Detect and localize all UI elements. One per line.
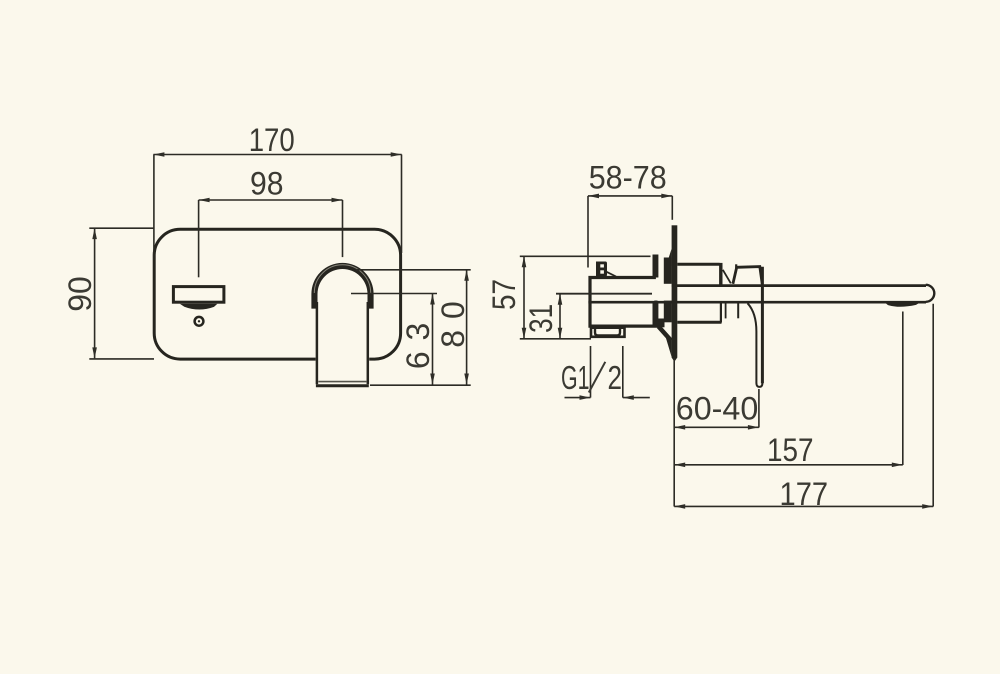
dim 157 right arrow [892, 463, 903, 468]
dim 63 top arrow [430, 294, 435, 305]
bar bottom wedge [666, 338, 672, 357]
svg-text:170: 170 [249, 122, 295, 158]
junction bottom base fill [658, 319, 665, 328]
svg-text:57: 57 [486, 279, 522, 310]
lever bottom cap [756, 383, 762, 387]
dim 90 bottom extension [89, 358, 154, 360]
stub notch upper [600, 264, 604, 267]
stub slope line [607, 272, 617, 277]
cover top line [677, 263, 719, 266]
spout tube end cap [926, 285, 935, 302]
dim G1/2 right arrowhead [623, 395, 634, 400]
dim 31 bottom arrow [558, 328, 563, 339]
cartridge thin line (31 reference) [556, 293, 652, 295]
dims 57/31 bottom extension [520, 338, 591, 340]
dim 63 bottom arrow [430, 374, 435, 385]
dim 177 right arrow [922, 504, 933, 509]
dim 58-78 left extension [587, 196, 589, 268]
svg-text:80: 80 [435, 301, 471, 348]
dims 63/80 shared bottom extension [370, 384, 471, 386]
spout front rectangle [173, 287, 224, 303]
wall plate rounded rectangle [154, 229, 400, 359]
svg-text:90: 90 [62, 276, 98, 312]
dim 58-78 right arrow [661, 194, 672, 199]
dim 57 top extension [520, 255, 651, 257]
svg-text:58-78: 58-78 [589, 159, 667, 195]
cover right edge [719, 263, 722, 286]
cover bottom line [677, 321, 721, 324]
spout outlet crescent [885, 303, 920, 307]
dim 98 right extension [342, 200, 344, 257]
junction outer bottom block [664, 301, 672, 323]
dim 98 line [199, 199, 343, 201]
spout tube top line [672, 284, 926, 287]
junction flange top block [653, 255, 659, 278]
svg-text:2: 2 [608, 359, 623, 396]
dim 80 top arrow [464, 270, 469, 281]
dim 98 left extension [198, 200, 200, 277]
drain wedge diagonal [659, 327, 672, 341]
svg-text:157: 157 [767, 432, 814, 468]
svg-text:60-40: 60-40 [676, 391, 759, 427]
wall plate bar (side) [672, 225, 678, 357]
cover bottom inner edge [725, 303, 727, 318]
handle left side line [316, 302, 319, 384]
dim 60-40 right extension [758, 389, 760, 428]
dim 177 left arrow [674, 504, 685, 509]
dim 157 right extension [902, 312, 904, 466]
dim 80 top extension [356, 269, 471, 271]
dim 90 top extension [89, 227, 154, 229]
junction outer top block [664, 258, 672, 284]
dim 170 line [153, 154, 401, 156]
svg-text:63: 63 [400, 323, 436, 370]
dim 31 line [559, 294, 561, 339]
handle silhouette (background fill) [311, 263, 373, 388]
dim 170 left arrow [153, 152, 164, 157]
dim 57 top arrow [522, 256, 527, 267]
body split line / tube bottom line [588, 301, 926, 304]
aerator circle [195, 317, 204, 326]
dim 60-40 right arrow [748, 425, 759, 430]
dim 157 line [674, 464, 903, 466]
handle right side line [367, 302, 370, 384]
inlet housing outer [591, 328, 625, 337]
svg-text:G1: G1 [561, 359, 590, 396]
spout underside crescent [180, 304, 218, 310]
dim G1/2 left extension [590, 346, 592, 398]
svg-text:177: 177 [780, 476, 829, 512]
dim G1/2 right arrow line [623, 397, 650, 399]
inlet housing inner [595, 329, 620, 336]
dim 58-78 right extension [671, 196, 673, 220]
dim 60-40 line [674, 426, 759, 428]
dim 58-78 line [588, 195, 672, 197]
svg-text:98: 98 [250, 166, 284, 202]
handle cap notch tick [735, 264, 737, 268]
dim 177 right extension [932, 304, 934, 507]
dim 60-40 left arrow [674, 425, 685, 430]
long left extension (wall line) [673, 358, 675, 507]
dim 58-78 left arrow [588, 194, 599, 199]
lever front curve [748, 303, 757, 383]
valve body rectangle [590, 278, 656, 327]
dim 90 top arrow [92, 228, 97, 239]
dim G1/2 left arrowhead [580, 395, 591, 400]
dim 98 right arrow [332, 198, 343, 203]
dim G1/2 right extension [622, 346, 624, 398]
stub notch lower [600, 270, 604, 273]
dim 31 top arrow [558, 294, 563, 305]
handle bottom edge [316, 384, 369, 387]
dim G1/2 left arrow line [565, 397, 591, 399]
dim 170 right arrow [391, 152, 402, 157]
dim 177 line [674, 505, 933, 507]
lever rear edge [761, 267, 764, 384]
svg-text:31: 31 [523, 304, 559, 333]
G1/2 fraction slash [589, 362, 606, 393]
lever front diagonal [723, 270, 731, 284]
dim 157 left arrow [674, 463, 685, 468]
dim 57 bottom arrow [522, 328, 527, 339]
dim 63 top extension (handle pivot line) [351, 293, 437, 295]
wall bar bottom taper [672, 358, 678, 362]
aerator center dot [198, 320, 200, 322]
dim 98 left arrow [199, 198, 210, 203]
dim 80 bottom arrow [464, 374, 469, 385]
bar top wedge [666, 249, 672, 267]
junction flange bottom block [653, 303, 659, 328]
dim 57 line [523, 256, 525, 339]
dim 170 right extension [401, 155, 403, 254]
lever hidden edge short line [737, 303, 739, 318]
dim 63 line [432, 294, 434, 385]
handle top ring band (dark U) [311, 263, 373, 309]
dim 170 left extension [153, 155, 155, 261]
handle bottom inner line [318, 381, 366, 383]
set screw stub B [596, 262, 607, 277]
dim 90 line [94, 228, 96, 358]
dim 90 bottom arrow [92, 347, 97, 358]
cover bottom right edge [720, 303, 722, 322]
dim 80 line [466, 270, 468, 385]
handle ring light streak [314, 265, 370, 293]
handle cap trapezoid [733, 267, 762, 284]
